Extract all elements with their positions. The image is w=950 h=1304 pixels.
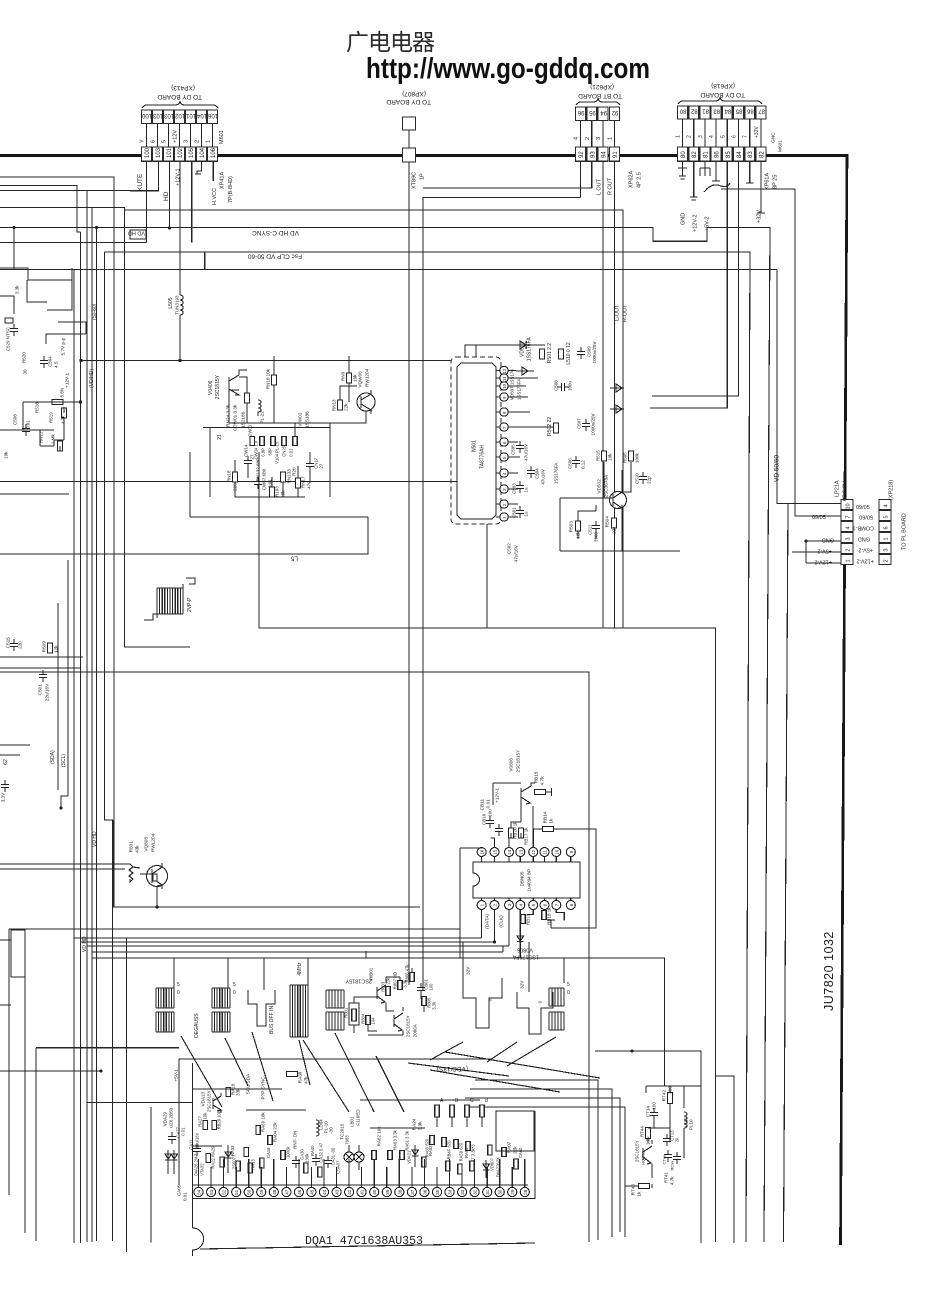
svg-text:103: 103 xyxy=(163,112,174,118)
wire x701 corner xyxy=(595,1051,701,1243)
label +5V-2 left xyxy=(817,548,832,554)
svg-text:100: 100 xyxy=(429,983,434,991)
resistor R503 xyxy=(576,521,581,531)
connector XP807 label xyxy=(386,98,431,105)
svg-text:RCxx: RCxx xyxy=(669,1161,674,1171)
label LT07 xyxy=(684,1117,689,1127)
inductor L510 xyxy=(559,349,564,359)
connector XP618 bottom row xyxy=(678,147,688,161)
svg-text:RB17 1k: RB17 1k xyxy=(524,827,529,845)
svg-text:VD HD: VD HD xyxy=(128,230,145,236)
svg-text:7: 7 xyxy=(743,135,749,138)
capacitor CB11 xyxy=(495,824,503,836)
svg-text:TO DY BOARD: TO DY BOARD xyxy=(700,91,745,98)
svg-text:RB15: RB15 xyxy=(534,771,539,783)
svg-text:DBN05: DBN05 xyxy=(520,871,525,886)
label L OUT xyxy=(597,178,603,195)
wire pins to parts xyxy=(508,371,553,518)
svg-text:C508: C508 xyxy=(554,380,559,391)
svg-text:VDA29: VDA29 xyxy=(163,1112,168,1127)
capacitor C503 xyxy=(516,481,524,493)
svg-text:(XP807): (XP807) xyxy=(402,90,426,97)
svg-text:34: 34 xyxy=(448,1189,453,1195)
capacitor C515 xyxy=(10,639,18,651)
svg-text:4.7k: 4.7k xyxy=(61,415,66,424)
svg-text:4: 4 xyxy=(884,504,890,507)
resistor RA69 xyxy=(256,1126,260,1135)
wire IC top rail xyxy=(465,345,545,357)
svg-text:RWL204: RWL204 xyxy=(151,833,156,852)
svg-text:+32V: +32V xyxy=(757,210,763,223)
svg-text:6: 6 xyxy=(884,526,890,529)
label PIP SYNC xyxy=(261,1076,266,1100)
capacitor CB01 xyxy=(417,983,425,995)
svg-text:(DATA): (DATA) xyxy=(485,914,490,929)
svg-text:50/60: 50/60 xyxy=(859,514,873,520)
svg-text:C501: C501 xyxy=(38,684,43,696)
svg-text:2SC1815Y: 2SC1815Y xyxy=(215,374,221,399)
label (SCL) xyxy=(61,754,67,767)
wire long y481 xyxy=(0,481,457,483)
svg-text:RN18: RN18 xyxy=(227,470,232,482)
svg-text:RB18 1k: RB18 1k xyxy=(547,907,552,925)
connector XP621 link wires xyxy=(580,121,582,147)
wires above IC xyxy=(460,801,597,958)
svg-text:KUTE: KUTE xyxy=(137,173,144,191)
svg-text:09/05: 09/05 xyxy=(812,515,826,521)
svg-text:C: C xyxy=(470,1098,474,1104)
svg-text:N501: N501 xyxy=(472,440,478,452)
svg-text:VTA32: VTA32 xyxy=(200,1163,205,1176)
svg-text:101: 101 xyxy=(167,147,173,158)
svg-text:1: 1 xyxy=(480,903,485,906)
wire corner x36 xyxy=(35,1048,37,1241)
svg-text:CB11: CB11 xyxy=(480,799,485,811)
resistor RN13 xyxy=(338,400,343,410)
svg-text:XP41A: XP41A xyxy=(220,172,226,189)
svg-text:4.7k: 4.7k xyxy=(670,1176,675,1185)
svg-text:R806 47k: R806 47k xyxy=(405,964,410,983)
diode 2S607 xyxy=(225,1145,231,1173)
resistor r1 xyxy=(281,1151,286,1160)
capacitor C501 xyxy=(516,506,524,518)
wires below IC xyxy=(482,910,565,947)
svg-text:1.Mk: 1.Mk xyxy=(51,433,56,444)
svg-text:CDW01 3.3k: CDW01 3.3k xyxy=(233,404,238,431)
label 21 xyxy=(217,434,223,440)
svg-text:TUN3193: TUN3193 xyxy=(175,295,180,315)
capacitor C507 xyxy=(582,419,590,431)
svg-text:47k: 47k xyxy=(304,1076,309,1084)
svg-text:1S2186: 1S2186 xyxy=(241,411,246,428)
resistor RA04 xyxy=(268,1136,273,1145)
svg-text:CA32 0.47: CA32 0.47 xyxy=(319,1142,324,1162)
label (VD/HD) xyxy=(89,369,95,388)
svg-text:RA63 3.3k: RA63 3.3k xyxy=(393,1129,398,1149)
ground pin82 second xyxy=(690,161,697,200)
label C502 47u/16V xyxy=(507,543,512,554)
wire left drop x104 xyxy=(105,252,113,1241)
svg-text:d: d xyxy=(485,1098,488,1104)
transistor V0B02 xyxy=(394,1007,403,1035)
svg-text:L505: L505 xyxy=(168,297,174,308)
svg-text:R520: R520 xyxy=(22,352,27,363)
svg-text:105: 105 xyxy=(189,147,195,158)
svg-text:R OUT: R OUT xyxy=(608,177,614,195)
svg-text:VD HD: VD HD xyxy=(92,831,98,847)
label V0806 xyxy=(509,758,514,772)
resistor RA60 xyxy=(430,1136,435,1145)
label GND below xyxy=(681,213,687,225)
svg-text:3: 3 xyxy=(507,903,512,906)
waveform comb DEGAUSS lower xyxy=(156,1012,174,1032)
wire corner x423 xyxy=(423,198,581,991)
svg-text:http://www.go-gddq.com: http://www.go-gddq.com xyxy=(366,53,650,85)
connector XP621 brace xyxy=(576,99,620,105)
svg-text:LP21A: LP21A xyxy=(835,480,841,497)
svg-text:+32V: +32V xyxy=(754,126,760,138)
svg-text:0: 0 xyxy=(488,998,493,1001)
svg-text:RB14: RB14 xyxy=(543,811,548,823)
resistor RA59 xyxy=(454,1140,459,1149)
capacitor CN17 xyxy=(306,459,314,471)
svg-text:XT89C: XT89C xyxy=(412,172,418,189)
wire fan x625 xyxy=(465,1107,625,1230)
resistor R831 zigzag xyxy=(129,864,140,882)
ground pin80 xyxy=(678,161,687,179)
diode VD807 xyxy=(483,1160,489,1178)
svg-text:40: 40 xyxy=(372,1189,377,1195)
svg-text:20: 20 xyxy=(675,1137,680,1142)
waveform square 32V big2 xyxy=(517,992,553,1034)
label 32V xyxy=(466,966,471,975)
svg-text:32V: 32V xyxy=(466,966,471,975)
svg-text:1SS176FA: 1SS176FA xyxy=(512,954,539,960)
resistor fill row xyxy=(220,1157,224,1167)
resistor RA62 xyxy=(372,1151,377,1160)
wire +5V-2 stub xyxy=(700,161,710,176)
label RA15 xyxy=(251,1159,256,1170)
svg-text:7: 7 xyxy=(554,903,559,906)
svg-text:RT44: RT44 xyxy=(640,1126,645,1137)
svg-text:4: 4 xyxy=(846,526,852,529)
resistor RA27 xyxy=(203,1121,208,1130)
resistor RB4F xyxy=(442,1138,447,1147)
svg-text:3: 3 xyxy=(596,137,602,140)
svg-text:27: 27 xyxy=(319,463,324,468)
capacitor C511 xyxy=(592,521,600,533)
svg-text:87: 87 xyxy=(758,108,765,114)
diode VD502b xyxy=(610,384,624,413)
svg-text:16: 16 xyxy=(480,849,485,855)
svg-text:0.01: 0.01 xyxy=(183,1192,188,1201)
waveform comb 2 upper xyxy=(212,988,230,1008)
wire R OUT long xyxy=(613,161,615,628)
resistor RN24 xyxy=(245,393,250,403)
svg-text:2SC1815Y: 2SC1815Y xyxy=(207,1090,212,1112)
svg-text:C509: C509 xyxy=(587,346,592,357)
wire x734 corner xyxy=(716,1076,734,1243)
svg-text:R807 HD: R807 HD xyxy=(393,972,398,989)
svg-text:100: 100 xyxy=(145,147,151,158)
capacitor CA11 xyxy=(193,1144,201,1156)
label DEGAUSS xyxy=(194,1013,200,1038)
svg-text:10: 10 xyxy=(554,849,559,855)
resistor RA10 xyxy=(226,1088,231,1097)
inductor LW coil xyxy=(258,400,261,416)
wire drop x14 xyxy=(13,228,15,270)
waveform comb 5 lower xyxy=(326,1012,344,1030)
svg-text:101: 101 xyxy=(185,112,196,118)
capacitor ca xyxy=(292,1156,300,1168)
diode VDA29 pair xyxy=(165,1150,177,1174)
svg-text:43: 43 xyxy=(335,1189,340,1195)
capacitor C508 xyxy=(557,383,569,391)
resistor R804 xyxy=(366,1016,371,1025)
label KUTE xyxy=(137,173,144,191)
label L505 xyxy=(168,297,174,308)
svg-text:1000k: 1000k xyxy=(286,1146,291,1158)
svg-text:5: 5 xyxy=(531,903,536,906)
svg-text:VD501: VD501 xyxy=(519,341,525,357)
svg-text:CN25: CN25 xyxy=(282,445,287,456)
waveform comb right lower xyxy=(549,1012,564,1030)
resistor RT40 xyxy=(639,1184,650,1189)
svg-text:3.3k: 3.3k xyxy=(432,1001,437,1010)
label +5V-1 xyxy=(174,1069,179,1082)
wire transistor emitter xyxy=(560,498,680,551)
svg-text:HQ 709: HQ 709 xyxy=(640,1150,645,1165)
label GND left xyxy=(822,537,834,543)
svg-text:RN10 10k: RN10 10k xyxy=(266,368,271,389)
wire KUTE xyxy=(146,161,148,242)
svg-text:(CLK): (CLK) xyxy=(499,915,504,928)
label LP21A 6P 8-8V xyxy=(835,480,841,497)
svg-text:0.01: 0.01 xyxy=(289,448,294,457)
svg-text:52: 52 xyxy=(222,1189,227,1195)
wire L505 down xyxy=(179,318,181,361)
svg-text:10u: 10u xyxy=(488,809,493,817)
svg-text:4MHz: 4MHz xyxy=(297,962,303,976)
label RA24 xyxy=(412,1118,417,1130)
svg-text:3.3k: 3.3k xyxy=(15,285,20,294)
IC DQA1 bottom line xyxy=(200,1243,535,1249)
svg-text:RB29 10k: RB29 10k xyxy=(217,1110,222,1129)
label LD04 xyxy=(319,1119,324,1130)
svg-text:10k: 10k xyxy=(608,453,613,461)
resistor R518 xyxy=(52,400,63,405)
svg-text:102: 102 xyxy=(178,147,184,158)
svg-text:XP61A: XP61A xyxy=(765,173,771,190)
svg-text:(SDA): (SDA) xyxy=(50,750,56,764)
capacitor C504 xyxy=(527,466,535,478)
wire XP621 pin92 to L line xyxy=(580,161,582,197)
svg-text:62: 62 xyxy=(3,759,9,765)
svg-text:L-OUT: L-OUT xyxy=(615,304,621,321)
diode VDA21 xyxy=(412,1145,418,1167)
IC DQA1 notch arc xyxy=(193,1228,204,1256)
svg-text:1u: 1u xyxy=(524,487,529,493)
wire lower cluster xyxy=(235,423,330,497)
wire y243 xyxy=(0,242,147,244)
svg-text:RA61 3.3k: RA61 3.3k xyxy=(405,1130,410,1150)
svg-text:C502: C502 xyxy=(507,543,512,554)
svg-text:84: 84 xyxy=(737,151,743,158)
connector XP618 brace xyxy=(678,98,762,104)
svg-text:6: 6 xyxy=(543,903,548,906)
svg-text:0: 0 xyxy=(233,990,236,996)
svg-text:96: 96 xyxy=(577,109,584,115)
wire y1071 xyxy=(0,1070,101,1072)
svg-text:1000u/25V: 1000u/25V xyxy=(592,342,597,364)
label 10k xyxy=(4,451,9,459)
label 2VP-P xyxy=(187,597,193,612)
resistor RA22 xyxy=(206,1154,211,1163)
svg-text:R519: R519 xyxy=(49,412,54,423)
wire x113 jog xyxy=(106,820,113,907)
svg-text:PL-22: PL-22 xyxy=(260,411,265,424)
svg-text:CW14: CW14 xyxy=(244,444,249,457)
wire XP621 pin93 to R line xyxy=(423,161,592,188)
label (SDA) xyxy=(50,750,56,764)
connector XP413 top row xyxy=(142,110,152,124)
svg-text:2SC1815Y: 2SC1815Y xyxy=(345,978,372,984)
label HD xyxy=(163,191,170,201)
svg-text:RA04 22k: RA04 22k xyxy=(273,1122,278,1143)
svg-text:14: 14 xyxy=(507,849,512,855)
svg-text:CA18: CA18 xyxy=(266,1147,271,1158)
svg-text:5.7V p-p: 5.7V p-p xyxy=(61,337,66,355)
wire left steps lower xyxy=(0,296,86,344)
main horizontal bus wire xyxy=(0,154,847,157)
resistor RA07 xyxy=(502,1148,507,1157)
svg-text:+12V-1: +12V-1 xyxy=(495,788,500,803)
IC DBN05 body xyxy=(473,862,580,898)
connector XP413 label xyxy=(157,93,202,100)
connector XP807 bottom square xyxy=(403,148,416,162)
svg-text:1u4094 BP: 1u4094 BP xyxy=(527,869,532,892)
svg-text:CW03: CW03 xyxy=(248,424,253,436)
connector XP807 link wire xyxy=(408,130,410,148)
inductor LD04 xyxy=(316,1120,319,1136)
label XP61A 8P 25 xyxy=(765,173,771,190)
label L5 xyxy=(290,555,298,562)
IC N501 label xyxy=(472,440,478,452)
capacitor ct b xyxy=(673,1152,681,1164)
label +5V-2 below xyxy=(705,216,711,231)
svg-text:CA05: CA05 xyxy=(177,1184,182,1196)
wire cluster links xyxy=(354,968,424,1035)
IC DBN05 label xyxy=(520,871,525,886)
wire H.VCC xyxy=(212,161,214,181)
svg-text:R103: R103 xyxy=(275,486,280,497)
svg-text:SCL-SDA: SCL-SDA xyxy=(246,1073,251,1094)
wire VD-HD long line xyxy=(0,208,623,629)
svg-text:1SS176FA: 1SS176FA xyxy=(526,337,532,362)
label VQW06 xyxy=(358,371,363,388)
svg-text:VDA21: VDA21 xyxy=(407,1150,412,1164)
svg-text:37: 37 xyxy=(410,1189,415,1195)
label VDA21 xyxy=(407,1150,412,1164)
wire left line y177 xyxy=(0,177,114,907)
svg-text:+12V-1: +12V-1 xyxy=(176,168,182,186)
svg-text:81: 81 xyxy=(702,108,709,114)
svg-text:92: 92 xyxy=(579,151,585,158)
svg-text:30: 30 xyxy=(23,369,28,375)
svg-text:VQW06: VQW06 xyxy=(358,371,363,388)
svg-text:11: 11 xyxy=(543,850,548,855)
wire pin86 stub xyxy=(712,161,720,181)
svg-text:92: 92 xyxy=(611,109,618,115)
svg-text:BUS OFF IN: BUS OFF IN xyxy=(269,1006,275,1034)
transistor VD502 xyxy=(610,492,627,509)
svg-text:RA22 RA29: RA22 RA29 xyxy=(211,1146,216,1169)
svg-text:104: 104 xyxy=(371,1017,376,1025)
label XP62A 4P 2.5 xyxy=(629,171,635,188)
svg-text:12: 12 xyxy=(502,368,507,374)
resistor RT42 xyxy=(668,1093,673,1104)
svg-text:5: 5 xyxy=(177,982,180,988)
svg-text:C505: C505 xyxy=(511,444,516,455)
wire left box horizontals xyxy=(0,657,83,668)
svg-text:CT14: CT14 xyxy=(646,1105,651,1117)
capacitor CA77 xyxy=(168,1132,176,1144)
resistor RA15a xyxy=(244,1148,249,1157)
svg-text:RN9: RN9 xyxy=(341,371,346,380)
svg-text:51: 51 xyxy=(234,1189,239,1195)
svg-text:5: 5 xyxy=(884,515,890,518)
svg-text:91: 91 xyxy=(613,151,619,158)
svg-text:94: 94 xyxy=(602,151,608,158)
waveform comb 2 lower xyxy=(212,1012,230,1032)
svg-text:470: 470 xyxy=(307,481,312,489)
wire VD HD C-SYNC line xyxy=(0,228,770,1243)
label VD HD C-SYNC xyxy=(252,229,299,236)
svg-text:22p: 22p xyxy=(647,476,652,484)
wire R503 xyxy=(578,505,596,539)
svg-text:22k: 22k xyxy=(612,526,617,534)
wire left verticals xyxy=(74,191,127,1253)
wire fan x620 xyxy=(465,1098,620,1232)
svg-text:C529 NTSC: C529 NTSC xyxy=(6,326,11,351)
svg-text:R505: R505 xyxy=(623,452,628,463)
resistor RN17 xyxy=(296,478,301,488)
svg-text:10k: 10k xyxy=(203,1112,208,1120)
svg-text:2SC1815Y: 2SC1815Y xyxy=(516,749,521,773)
wire left low xyxy=(0,745,30,755)
svg-text:4: 4 xyxy=(518,903,523,906)
wire pin85 xyxy=(650,161,727,408)
wire transistor base xyxy=(560,462,631,498)
diode VD501 xyxy=(508,341,534,349)
svg-text:11: 11 xyxy=(502,376,507,381)
connector XP413 pin link wires xyxy=(146,124,148,147)
svg-text:R515: R515 xyxy=(596,450,601,461)
label 5.7V p-p xyxy=(61,337,66,355)
svg-text:R509: R509 xyxy=(42,641,47,653)
svg-text:82: 82 xyxy=(692,151,698,158)
connector XP618 label xyxy=(711,82,735,89)
svg-text:4: 4 xyxy=(574,137,580,140)
wire HD rail xyxy=(0,190,159,192)
svg-text:COMB-1: COMB-1 xyxy=(853,525,874,531)
wire pin 101 to VD-HD line xyxy=(168,161,170,228)
resistor R515 xyxy=(602,451,607,461)
svg-text:45: 45 xyxy=(309,1189,314,1195)
wire +5V-2 stub xyxy=(792,551,841,553)
label VD HD mid xyxy=(92,831,98,847)
svg-text:95: 95 xyxy=(588,109,595,115)
